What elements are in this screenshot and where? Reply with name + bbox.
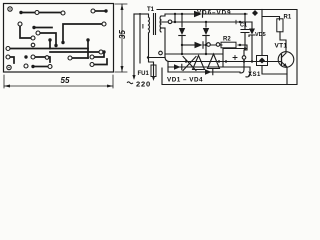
node dot xyxy=(251,60,253,62)
svg-text:R1: R1 xyxy=(284,15,292,21)
trace vertical with pad xyxy=(87,41,89,58)
capacitor C1 xyxy=(241,14,249,49)
trace bottom middle xyxy=(35,57,50,62)
resistor R2 xyxy=(221,42,236,48)
top rail wire xyxy=(177,13,247,15)
diode VD2 outline xyxy=(208,54,220,69)
resistor R1 xyxy=(277,19,283,32)
trace short vertical xyxy=(49,41,51,49)
pad xyxy=(61,41,64,44)
junction diamond xyxy=(252,10,258,16)
dimension 35 arrowheads xyxy=(121,4,124,72)
trace short horizontal xyxy=(34,27,52,29)
pad xyxy=(90,63,94,67)
dimension 55 arrowheads xyxy=(4,85,113,88)
wire mains to primary xyxy=(134,13,148,15)
node dot xyxy=(244,47,246,49)
svg-text:R2: R2 xyxy=(223,37,231,43)
pad xyxy=(24,55,27,58)
trace bottom middle lower xyxy=(35,66,48,68)
transformer secondary top tap xyxy=(161,14,177,16)
bridge bottom wire xyxy=(168,71,240,73)
dimension 55 line xyxy=(4,85,113,87)
svg-text:C1: C1 xyxy=(240,23,247,29)
pad xyxy=(61,11,65,15)
pad xyxy=(6,55,10,59)
svg-text:220: 220 xyxy=(136,79,151,88)
diode VD8 vertical xyxy=(205,22,207,27)
pad xyxy=(99,50,103,54)
node dot xyxy=(181,13,183,15)
plus polarity mark xyxy=(233,56,237,60)
trace short top-right xyxy=(95,10,104,12)
socket XS1 pin 2 xyxy=(246,67,250,77)
terminal ring xyxy=(216,43,220,47)
bridge left vertical xyxy=(167,62,169,72)
svg-text:FU1: FU1 xyxy=(138,71,150,77)
wire primary-side junction xyxy=(148,57,165,59)
C1 polarity plus xyxy=(234,20,238,24)
indicator lamp box xyxy=(257,56,268,66)
trace top horizontal xyxy=(21,12,62,14)
emitter bottom rail xyxy=(262,66,287,85)
pad xyxy=(102,50,105,53)
pad xyxy=(68,56,72,60)
bridge lower wire xyxy=(168,66,250,68)
R2 left lead with series diode VD9 xyxy=(182,44,194,46)
pad xyxy=(32,26,35,29)
pad xyxy=(90,55,94,59)
node dot xyxy=(174,13,176,15)
pad xyxy=(104,9,107,12)
pad xyxy=(86,38,89,41)
node dot xyxy=(181,53,183,55)
diode VD3 xyxy=(174,64,181,69)
svg-text:XS1: XS1 xyxy=(248,72,261,78)
transformer T1 core xyxy=(154,14,156,35)
node dot xyxy=(243,60,245,62)
pad xyxy=(31,36,35,40)
label ~220 tilde xyxy=(127,82,133,84)
node dot xyxy=(239,21,241,23)
svg-text:VD5: VD5 xyxy=(255,32,266,38)
svg-text:I: I xyxy=(142,24,144,31)
trace mid with corner down xyxy=(40,33,56,44)
pad xyxy=(24,64,28,68)
diode VD4 xyxy=(205,69,212,74)
wire R2 node to C1 node xyxy=(223,49,247,68)
pad xyxy=(31,55,35,59)
transistor VT1 xyxy=(278,52,294,68)
pad xyxy=(35,11,39,15)
resistor R1 feed wire xyxy=(262,17,280,21)
transformer T1 secondary winding xyxy=(160,16,161,32)
mains lead left arrowhead xyxy=(132,75,135,80)
transformer T1 primary winding xyxy=(149,14,154,65)
schematic enclosure border xyxy=(140,10,297,85)
pad xyxy=(48,38,51,41)
pad xyxy=(54,44,57,47)
fuse mains arrowhead xyxy=(152,76,155,81)
diode VD7 vertical xyxy=(181,14,183,27)
node dot xyxy=(205,44,207,46)
node dot xyxy=(244,13,246,15)
dimension 35 extension line xyxy=(115,4,127,72)
terminal ring xyxy=(159,51,163,55)
dimension 55 extension lines xyxy=(4,75,113,88)
socket contact ring xyxy=(242,56,246,60)
diode VD9 xyxy=(195,42,203,48)
PCB board outline xyxy=(4,4,114,73)
pad xyxy=(31,65,34,68)
svg-text:VT1: VT1 xyxy=(275,43,288,50)
svg-text:T1: T1 xyxy=(147,7,155,13)
mains lead left wire xyxy=(133,14,135,78)
transformer secondary mid tap xyxy=(161,21,177,23)
node dot xyxy=(174,21,176,23)
wire secondary down with bend xyxy=(165,28,170,62)
VT1 emitter arrowhead xyxy=(283,63,287,67)
terminal ring xyxy=(168,20,172,24)
trace bottom right upper xyxy=(72,57,88,59)
R2 right lead xyxy=(238,45,247,56)
pad xyxy=(6,47,10,51)
svg-text:35: 35 xyxy=(118,30,127,39)
diode VD1 outline xyxy=(193,56,205,70)
transformer secondary bottom tap xyxy=(161,27,165,29)
socket XS1 pin 1 xyxy=(240,59,244,73)
node dot xyxy=(225,60,227,62)
second rail wire xyxy=(161,21,252,23)
fuse FU1 xyxy=(151,65,156,77)
pad xyxy=(102,22,106,26)
pad xyxy=(36,31,40,35)
diode VD6 on top rail xyxy=(194,11,202,17)
fuse lead xyxy=(153,65,155,78)
pad xyxy=(91,9,95,13)
node dot xyxy=(185,60,187,62)
node dot xyxy=(205,21,207,23)
mounting hole bottom-left xyxy=(7,65,11,69)
node dot xyxy=(218,60,220,62)
svg-text:55: 55 xyxy=(61,76,70,85)
zener diode VD5 xyxy=(251,22,253,28)
trace top-right corner xyxy=(63,24,102,41)
mounting hole top-left xyxy=(8,7,12,11)
dimension 35 line xyxy=(121,4,123,72)
indicator diamond xyxy=(259,58,265,64)
trace bottom right hook 1 xyxy=(94,53,104,57)
pad xyxy=(48,65,52,69)
trace L-shape left xyxy=(20,26,31,38)
svg-text:VD6–VD9: VD6–VD9 xyxy=(197,9,232,16)
pad xyxy=(18,22,22,26)
wire to indicator xyxy=(261,10,263,56)
pad xyxy=(19,11,22,14)
bridge diagonal wires xyxy=(183,57,196,71)
node dot xyxy=(239,44,241,46)
node dot xyxy=(205,53,207,55)
trace second middle horizontal xyxy=(50,51,99,53)
trace long middle horizontal xyxy=(10,48,88,50)
wire rail interconnect xyxy=(174,14,176,22)
terminal ring xyxy=(207,43,211,47)
trace bottom-left hook xyxy=(10,57,14,63)
pad isolated xyxy=(45,56,49,60)
node dot xyxy=(147,56,149,58)
pad isolated xyxy=(31,43,35,47)
node dot xyxy=(181,44,183,46)
svg-text:VD1 – VD4: VD1 – VD4 xyxy=(167,76,203,83)
base rail wire xyxy=(170,61,282,63)
trace bottom right hook 2 xyxy=(94,59,107,65)
bridge top wire xyxy=(165,53,222,55)
